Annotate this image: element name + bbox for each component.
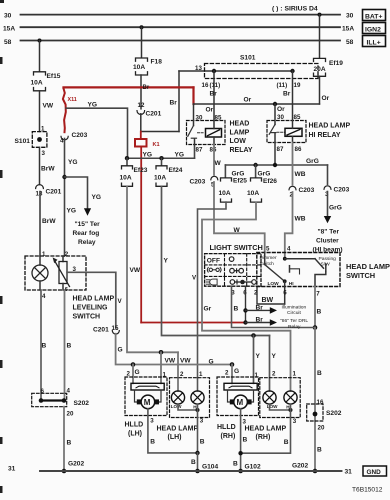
node 15A left label — [3, 26, 15, 33]
svg-text:2: 2 — [127, 370, 131, 377]
wire YG to leveling switch pin2 — [62, 139, 77, 259]
wire BW dimmer6 to light switch pin2 — [257, 287, 285, 305]
svg-text:"86" Ter DRL: "86" Ter DRL — [280, 318, 308, 324]
svg-text:Relay: Relay — [78, 239, 96, 246]
svg-text:15A: 15A — [342, 26, 354, 33]
svg-text:C203: C203 — [334, 186, 350, 193]
connector C203 pin 3 — [324, 186, 350, 198]
svg-text:Br: Br — [143, 85, 150, 91]
svg-text:3: 3 — [150, 417, 154, 424]
svg-text:4: 4 — [287, 246, 291, 253]
node S101 pin16 — [202, 69, 221, 89]
wire red X11 feed — [64, 85, 194, 104]
connector C203 pin 4 — [60, 132, 88, 144]
switch passing — [285, 256, 336, 297]
svg-text:S202: S202 — [326, 410, 342, 417]
wire B light switch pin3 to junction — [232, 286, 316, 327]
connector S101 (left) — [15, 132, 47, 157]
svg-text:Y: Y — [272, 353, 277, 360]
switch box LIGHT SWITCH — [205, 243, 263, 286]
svg-text:G102: G102 — [245, 463, 261, 470]
GND box — [363, 466, 387, 476]
svg-text:B: B — [317, 308, 322, 315]
svg-text:B: B — [150, 438, 155, 445]
svg-text:LOW: LOW — [268, 281, 280, 287]
svg-text:58: 58 — [4, 39, 12, 46]
svg-text:BW: BW — [262, 297, 274, 304]
wire red K1 down to DRL branch — [140, 147, 142, 323]
rail 31 ground — [8, 465, 352, 475]
node S101 pin19 — [277, 69, 301, 89]
svg-text:Br: Br — [256, 304, 264, 311]
svg-text:Or: Or — [277, 106, 285, 113]
svg-text:LIGHT SWITCH: LIGHT SWITCH — [210, 243, 263, 252]
wire VW line to HLLD pin1 and lamp LH pin2 — [127, 186, 178, 364]
svg-text:S/W: S/W — [321, 262, 331, 268]
svg-text:(RH): (RH) — [221, 433, 236, 440]
svg-text:B: B — [243, 436, 248, 443]
wire G C201-15 to HLLD line — [116, 334, 235, 367]
svg-text:G: G — [135, 369, 140, 376]
svg-text:31: 31 — [345, 468, 353, 475]
svg-text:10A: 10A — [247, 190, 259, 197]
lamp box HEAD LAMP (LH) — [157, 378, 210, 446]
svg-text:Or: Or — [244, 96, 252, 103]
wire C201-12 to K1 junction — [140, 114, 142, 132]
svg-text:C203: C203 — [299, 187, 315, 194]
rail 30 — [21, 14, 341, 16]
svg-text:B: B — [234, 305, 239, 312]
svg-text:S202: S202 — [74, 400, 90, 407]
svg-text:2: 2 — [225, 370, 229, 377]
svg-text:3: 3 — [42, 150, 46, 157]
wire Or Ef19 to Or-line — [320, 76, 330, 104]
wire YG arrow rear fog relay — [65, 177, 102, 216]
svg-text:G: G — [209, 358, 214, 365]
svg-text:7: 7 — [316, 290, 320, 297]
svg-text:10A: 10A — [120, 175, 132, 182]
wire BrW C201 to leveling switch pin 1 — [40, 192, 56, 259]
wire Br S101-19 to HI relay 85 — [283, 71, 293, 121]
wire Y Ef24 — [160, 158, 162, 166]
fuse Ef23 10A — [122, 166, 133, 187]
svg-text:X11: X11 — [68, 97, 77, 103]
svg-text:IGN2: IGN2 — [365, 26, 381, 33]
svg-text:2: 2 — [254, 289, 258, 296]
svg-text:20: 20 — [318, 424, 325, 431]
wire F18 to C201-12 — [138, 75, 145, 109]
svg-text:F18: F18 — [151, 59, 163, 66]
svg-text:SWITCH: SWITCH — [73, 314, 101, 321]
wire G to HLLD RH pin2 — [225, 365, 239, 384]
svg-text:M: M — [144, 398, 151, 407]
wire red horizontal to light switch pin6 junction — [141, 322, 245, 324]
wire ground lamps RH — [241, 404, 293, 453]
svg-text:B: B — [200, 438, 205, 445]
note 15 Ter Rear fog Relay — [73, 221, 101, 246]
svg-text:Br: Br — [283, 90, 291, 97]
connector C203 pin 5 — [190, 176, 218, 188]
connector S101 (top) — [205, 55, 319, 79]
svg-text:YG: YG — [88, 101, 98, 108]
switch dimmer — [260, 246, 300, 304]
svg-text:5: 5 — [266, 246, 270, 253]
note SIRIUS D4 — [272, 6, 318, 13]
svg-text:B: B — [284, 439, 289, 446]
connector C203 pin 2 — [289, 186, 315, 198]
svg-text:4: 4 — [60, 137, 64, 144]
svg-text:C201: C201 — [146, 111, 162, 118]
svg-text:3: 3 — [243, 418, 247, 425]
relay U1 HEAD LAMP LOW RELAY — [187, 104, 253, 154]
svg-text:Ef19: Ef19 — [329, 60, 343, 67]
node 30 left label — [4, 13, 12, 20]
ILL+ box — [363, 36, 386, 47]
wire red X11 wiggle to C203-4 — [63, 88, 77, 132]
connector S202 (right) — [307, 404, 342, 421]
svg-text:30: 30 — [346, 13, 354, 20]
svg-text:Br: Br — [170, 100, 178, 107]
svg-text:(LH): (LH) — [128, 430, 142, 437]
wire GrG to Ef25 — [225, 165, 244, 178]
wire Y to head lamp RH pin2 — [270, 336, 297, 392]
svg-text:HI: HI — [289, 281, 294, 287]
wire 30 rail to Ef19 — [318, 13, 322, 59]
wire 58 rail to Ef15 — [38, 39, 42, 72]
svg-text:B: B — [67, 439, 72, 446]
wire B switch to S202 right — [315, 328, 325, 472]
svg-text:1: 1 — [293, 370, 297, 377]
svg-text:Rear fog: Rear fog — [73, 230, 100, 237]
svg-text:B: B — [233, 460, 238, 467]
IGN2 box — [363, 23, 386, 34]
svg-text:10A: 10A — [154, 175, 166, 182]
svg-text:3: 3 — [200, 417, 204, 424]
ground G104 — [202, 463, 218, 470]
svg-text:6: 6 — [283, 289, 287, 296]
wire HLLD LH pin1 — [161, 352, 167, 383]
svg-text:G202: G202 — [68, 460, 84, 467]
svg-text:Dimmer: Dimmer — [260, 255, 277, 261]
lamp leveling indicator — [32, 256, 48, 290]
fuse Ef15 10A — [34, 72, 46, 91]
switch box HEAD LAMP LEVELING SWITCH — [25, 256, 114, 321]
lamp box HEAD LAMP (RH) — [245, 378, 301, 446]
svg-text:13: 13 — [195, 65, 202, 72]
svg-text:Ef15: Ef15 — [47, 73, 61, 80]
svg-text:15: 15 — [112, 325, 119, 332]
wire W C203-5 to dimmer pin5 — [214, 182, 265, 253]
icon headlamp — [206, 279, 217, 285]
svg-text:20: 20 — [67, 410, 74, 417]
wire ground HLLD RH motor to G102 — [233, 409, 243, 474]
svg-text:20A: 20A — [314, 66, 326, 73]
svg-text:SWITCH: SWITCH — [346, 271, 375, 280]
svg-text:58: 58 — [346, 39, 354, 46]
relay coil K1 — [135, 132, 160, 149]
svg-text:W: W — [215, 160, 222, 167]
svg-text:C201: C201 — [93, 327, 109, 334]
svg-text:OFF: OFF — [207, 257, 220, 264]
wire W LOW86 to C203-5 — [214, 145, 222, 175]
svg-text:1: 1 — [255, 372, 259, 379]
svg-text:87: 87 — [196, 147, 203, 154]
svg-text:G: G — [234, 368, 239, 375]
svg-text:VW: VW — [165, 357, 176, 364]
svg-text:HI RELAY: HI RELAY — [309, 132, 341, 139]
svg-text:Ef26: Ef26 — [263, 178, 277, 185]
svg-text:"15" Ter: "15" Ter — [75, 221, 101, 228]
svg-text:HEAD LAMP: HEAD LAMP — [346, 262, 390, 271]
svg-text:B: B — [42, 342, 47, 349]
svg-text:VW: VW — [130, 267, 141, 274]
wire G to HLLD LH pin2 — [127, 365, 140, 384]
svg-text:2: 2 — [180, 371, 184, 378]
fuse Ef24 10A — [156, 166, 167, 187]
svg-text:LOW: LOW — [267, 404, 278, 409]
connector C201 pin 12 — [137, 111, 162, 118]
svg-text:(11): (11) — [277, 82, 288, 89]
wire Or line — [194, 96, 320, 113]
svg-text:HLLD: HLLD — [125, 421, 144, 428]
scan artifacts left edge — [0, 0, 4, 493]
fuse Ef19 20A — [314, 58, 326, 76]
svg-text:Gr: Gr — [204, 305, 212, 312]
wire BrW S101 to C201-13 — [40, 147, 56, 184]
connector C201 pin 13 — [36, 185, 62, 198]
svg-text:Passing: Passing — [319, 256, 337, 262]
svg-text:M: M — [237, 398, 244, 407]
svg-text:Y: Y — [256, 353, 261, 360]
wire WB C203-2 to dimmer pin4 — [285, 192, 306, 258]
svg-text:HEAD LAMP: HEAD LAMP — [309, 122, 351, 129]
BAT+ box — [363, 10, 386, 21]
fuse F18 10A — [136, 58, 148, 75]
wire YG branch at X11 — [66, 101, 128, 156]
svg-text:30: 30 — [277, 114, 284, 121]
svg-text:RELAY: RELAY — [230, 147, 253, 154]
wire ground lamps LH — [178, 404, 200, 453]
svg-text:HEAD LAMP: HEAD LAMP — [157, 425, 199, 432]
svg-text:Cluster: Cluster — [316, 237, 339, 244]
wire Y to HLLD RH pin1 — [254, 336, 261, 384]
svg-text:YG: YG — [68, 159, 78, 166]
svg-text:30: 30 — [196, 115, 203, 122]
rail 58 — [21, 40, 341, 42]
svg-text:LOW: LOW — [171, 404, 182, 409]
wire WB HI86 to C203-2 — [293, 143, 306, 185]
svg-text:15A: 15A — [3, 26, 15, 33]
svg-text:WB: WB — [295, 215, 306, 222]
svg-text:(LH): (LH) — [168, 434, 182, 441]
svg-text:WB: WB — [295, 171, 306, 178]
svg-text:B: B — [317, 370, 322, 377]
svg-text:BAT+: BAT+ — [365, 13, 382, 20]
svg-text:4: 4 — [42, 293, 46, 300]
svg-text:Y: Y — [164, 257, 169, 264]
svg-text:HEAD LAMP: HEAD LAMP — [245, 425, 287, 432]
svg-text:1: 1 — [199, 371, 203, 378]
svg-text:10A: 10A — [219, 190, 231, 197]
wire head lamp LH pin2 — [178, 352, 203, 391]
svg-text:2: 2 — [272, 370, 276, 377]
svg-text:30: 30 — [4, 13, 12, 20]
note 8 Ter Cluster (HI beam) — [313, 228, 343, 253]
svg-text:Circuit: Circuit — [287, 310, 301, 316]
svg-text:YG: YG — [67, 207, 77, 214]
wire YG line to LOW relay 87 — [125, 145, 195, 161]
svg-text:C203: C203 — [72, 132, 88, 139]
svg-text:G: G — [118, 346, 123, 353]
svg-text:3: 3 — [73, 266, 77, 273]
wire B leveling pin4 to S202 — [41, 290, 47, 401]
svg-text:HEAD LAMP: HEAD LAMP — [73, 296, 115, 303]
svg-text:85: 85 — [215, 115, 222, 122]
ground G202 right — [292, 462, 317, 473]
svg-text:YG: YG — [175, 152, 185, 159]
node 58 left label — [4, 39, 12, 46]
svg-text:19: 19 — [294, 82, 301, 89]
svg-text:BrW: BrW — [42, 218, 56, 225]
svg-text:LEVELING: LEVELING — [73, 305, 109, 312]
svg-text:"8" Ter: "8" Ter — [318, 228, 340, 235]
svg-text:W: W — [234, 227, 241, 234]
wire Y line to RH lamps — [162, 186, 270, 338]
node 15A right label — [342, 26, 354, 33]
node 58 right label — [346, 39, 354, 46]
connector S202 (left) — [32, 393, 90, 417]
svg-text:BrW: BrW — [41, 166, 55, 173]
wire B S202 to G202 — [62, 407, 72, 474]
svg-text:HLLD: HLLD — [217, 424, 236, 431]
ground G202 left — [68, 460, 84, 467]
svg-text:85: 85 — [294, 114, 301, 121]
svg-text:GrG: GrG — [258, 171, 271, 178]
svg-text:S101: S101 — [240, 55, 256, 62]
svg-text:Br: Br — [256, 316, 264, 323]
svg-text:S101: S101 — [15, 138, 31, 145]
svg-text:YG: YG — [143, 152, 153, 159]
svg-text:12: 12 — [138, 102, 145, 109]
svg-text:Illumination: Illumination — [282, 304, 307, 310]
svg-text:YG: YG — [92, 194, 102, 201]
svg-text:GrG: GrG — [329, 204, 342, 211]
svg-text:ILL+: ILL+ — [367, 39, 381, 46]
svg-text:Or: Or — [206, 106, 214, 113]
svg-text:VW: VW — [180, 357, 191, 364]
svg-text:10A: 10A — [31, 79, 43, 86]
wire GrG to C203-3 — [327, 165, 329, 184]
actuator box HLLD (LH) — [125, 377, 168, 445]
wire 15A rail to F18 — [140, 25, 144, 58]
svg-text:10A: 10A — [133, 64, 145, 71]
wire GrG line HI87 — [225, 143, 327, 168]
connector C201 pin 15 — [93, 325, 119, 334]
fuse Ef26 10A — [251, 178, 262, 202]
wire VW Ef15 to S101 pin1 — [40, 91, 54, 133]
switch box HEAD LAMP SWITCH — [257, 253, 390, 287]
relay U2 HEAD LAMP HI RELAY — [267, 104, 350, 153]
svg-text:T6B15012: T6B15012 — [352, 487, 383, 494]
node light switch pins — [231, 289, 258, 296]
ground G102 — [245, 463, 261, 470]
actuator box HLLD (RH) — [217, 377, 259, 443]
svg-text:Ef23: Ef23 — [134, 167, 148, 174]
wire B leveling pin6 to S202 — [65, 290, 72, 401]
svg-text:( ) : SIRIUS D4: ( ) : SIRIUS D4 — [272, 6, 318, 13]
wire V pot pin3 to C201-15 — [67, 266, 123, 328]
svg-text:2: 2 — [65, 251, 69, 258]
wire ground HLLD LH motor — [148, 409, 200, 474]
svg-text:GrG: GrG — [232, 171, 245, 178]
rail 15A — [21, 26, 341, 28]
wire B passing to junction — [313, 287, 322, 330]
wire Br arrow illumination — [246, 304, 307, 316]
svg-text:Ef24: Ef24 — [169, 167, 183, 174]
svg-text:(11): (11) — [210, 82, 221, 89]
wire Br S101-16 to LOW relay 85 — [210, 71, 218, 121]
svg-text:LAMP: LAMP — [230, 129, 250, 136]
svg-text:(RH): (RH) — [256, 434, 271, 441]
svg-text:K1: K1 — [153, 142, 160, 148]
wire junction to S101-13 drop — [141, 131, 179, 133]
svg-text:G104: G104 — [202, 463, 218, 470]
wire light switch pin6 with Br branches — [243, 286, 247, 324]
svg-text:LOW: LOW — [230, 138, 247, 145]
note T6B15012 — [352, 487, 383, 494]
svg-text:C201: C201 — [46, 188, 62, 195]
svg-text:86: 86 — [295, 146, 302, 153]
svg-text:Br: Br — [210, 90, 218, 97]
wire Gr Ef26 to head lamp RH pin1 — [202, 202, 291, 391]
wire GrG arrow to cluster — [324, 192, 342, 224]
svg-text:Or: Or — [322, 95, 330, 102]
svg-text:Relay: Relay — [288, 324, 301, 330]
svg-text:Ef25: Ef25 — [233, 178, 247, 185]
node 30 right label — [346, 13, 354, 20]
icon park lamps — [207, 268, 221, 273]
wire VW Ef23 to lamps LH — [126, 158, 128, 166]
svg-text:1: 1 — [42, 251, 46, 258]
fuse Ef25 10A — [221, 178, 232, 202]
potentiometer leveling — [42, 256, 70, 300]
wire S101 pin13 feed — [170, 65, 293, 132]
svg-text:87: 87 — [277, 146, 284, 153]
wire Br arrow DRL relay — [246, 316, 309, 330]
svg-text:G202: G202 — [292, 462, 308, 469]
svg-text:GND: GND — [367, 469, 382, 476]
svg-text:C203: C203 — [190, 178, 206, 185]
svg-text:13: 13 — [36, 190, 43, 197]
svg-text:VW: VW — [43, 103, 54, 110]
svg-text:B: B — [67, 342, 72, 349]
svg-text:16: 16 — [202, 82, 209, 89]
svg-text:GrG: GrG — [306, 158, 319, 165]
wire V Ef25 to head lamp LH pin1 — [180, 202, 226, 391]
svg-text:B: B — [191, 459, 196, 466]
svg-text:HEAD: HEAD — [230, 121, 250, 128]
svg-text:31: 31 — [8, 465, 16, 472]
svg-text:3: 3 — [293, 418, 297, 425]
wire GrG to Ef26 — [256, 165, 271, 178]
svg-text:B: B — [317, 446, 322, 453]
